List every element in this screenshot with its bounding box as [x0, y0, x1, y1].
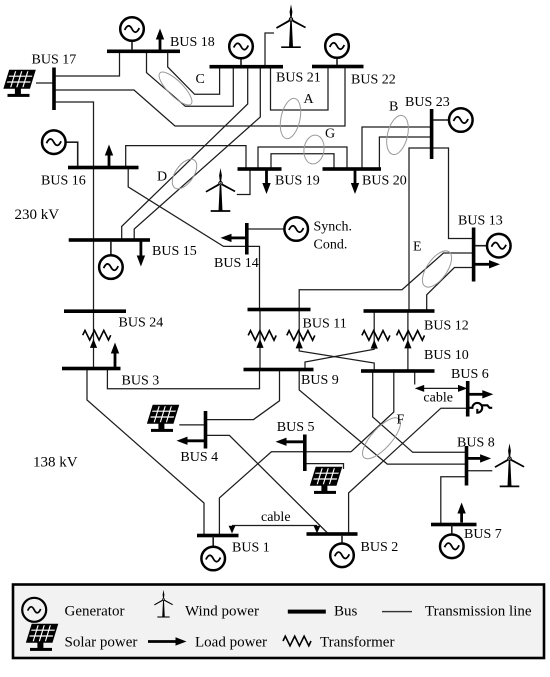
svg-text:D: D	[157, 170, 167, 185]
bus BUS 12	[364, 309, 435, 313]
wire line 15-24	[93, 240, 95, 311]
load arrow bus 8	[468, 454, 491, 462]
svg-text:Cond.: Cond.	[314, 238, 348, 253]
wire line 1-3	[87, 369, 204, 536]
bus BUS 14	[245, 223, 249, 255]
svg-text:BUS 17: BUS 17	[32, 53, 77, 68]
svg-text:BUS 12: BUS 12	[424, 318, 469, 333]
svg-text:BUS 3: BUS 3	[122, 373, 160, 388]
bus BUS 1	[197, 534, 239, 538]
solar power bus 4	[148, 406, 178, 432]
svg-text:F: F	[397, 413, 405, 428]
bus BUS 6	[466, 381, 470, 417]
wire cable riser bus 10	[414, 372, 416, 385]
wire line 12-13	[427, 268, 474, 312]
wire line 15-21 circuit 2	[134, 67, 260, 240]
generator G13	[475, 234, 511, 258]
legend transformer symbol	[283, 636, 311, 646]
svg-text:BUS 14: BUS 14	[214, 256, 259, 271]
svg-text:B: B	[389, 100, 398, 115]
wire transformer branch 10-11	[299, 310, 374, 371]
load arrow bus 13	[475, 260, 501, 268]
bus BUS 17	[52, 68, 56, 111]
wire line 1-5 and 5-10 left part	[219, 452, 351, 536]
wire line 19-20 circuit 2	[271, 154, 334, 169]
wire line 13-23	[432, 148, 474, 239]
svg-text:Wind power: Wind power	[185, 604, 259, 620]
bus BUS 13	[472, 228, 476, 282]
bus BUS 18	[107, 50, 180, 54]
bus BUS 24	[64, 309, 126, 313]
marker ellipse C	[155, 68, 197, 110]
wind power bus 19	[206, 168, 236, 211]
wire line 18-21 circuit 1	[168, 52, 220, 94]
bus BUS 11	[248, 308, 311, 312]
svg-text:BUS 15: BUS 15	[152, 244, 197, 259]
legend bus symbol	[288, 610, 326, 614]
wire line 18-21 circuit 2	[147, 52, 234, 106]
generator G22	[325, 34, 349, 65]
svg-text:230 kV: 230 kV	[15, 207, 60, 223]
wire line 11-13	[299, 253, 473, 310]
wire transformer branch 3-24	[93, 311, 95, 368]
svg-text:BUS 2: BUS 2	[361, 540, 399, 555]
bus BUS 7	[431, 523, 477, 527]
svg-text:BUS 6: BUS 6	[451, 367, 489, 382]
svg-text:BUS 11: BUS 11	[303, 317, 347, 332]
load arrow bus 14	[221, 234, 247, 242]
wire line 2-6	[349, 408, 468, 533]
wire wind connector bus 21	[265, 33, 274, 67]
transformer T9-12	[362, 331, 390, 349]
wire solar connector bus 4	[179, 424, 205, 426]
wire line 12-23	[409, 148, 432, 311]
bus BUS 23	[430, 109, 434, 159]
bus BUS 5	[303, 435, 307, 472]
svg-text:E: E	[413, 240, 422, 255]
load arrow bus 3	[111, 343, 119, 368]
svg-text:BUS 22: BUS 22	[351, 73, 396, 88]
transformer T10-11	[287, 331, 315, 349]
transformer T10-12	[397, 331, 425, 349]
wire line 4-9	[206, 370, 280, 420]
svg-text:Generator: Generator	[65, 604, 125, 620]
transformer T9-11	[248, 331, 276, 348]
generator G1	[201, 536, 225, 570]
wire line 21-22	[271, 67, 329, 110]
bus BUS 3	[62, 367, 121, 371]
generator G23	[433, 108, 473, 132]
generator G7	[440, 525, 464, 558]
bus BUS 10	[361, 369, 435, 373]
legend solar power symbol	[27, 625, 57, 651]
svg-text:138 kV: 138 kV	[33, 455, 78, 471]
generator G18	[120, 17, 144, 50]
svg-text:BUS 4: BUS 4	[180, 450, 218, 465]
svg-text:Load power: Load power	[195, 635, 267, 651]
wire line 19-20 circuit 1	[258, 147, 347, 169]
wire wind connector bus 19	[237, 169, 250, 195]
marker ellipse G	[302, 134, 326, 166]
bus BUS 20	[323, 167, 382, 171]
generator G21	[229, 35, 253, 66]
svg-text:G: G	[325, 127, 335, 142]
bus BUS 16	[68, 166, 139, 170]
wire wind connector bus 8	[467, 470, 493, 472]
svg-text:BUS 21: BUS 21	[276, 71, 321, 86]
load arrow bus 4	[177, 437, 205, 445]
load arrow bus 19	[262, 170, 270, 194]
marker ellipse D	[167, 155, 201, 193]
bus BUS 9	[244, 368, 314, 372]
wind power bus 8	[495, 443, 525, 486]
legend generator symbol	[22, 598, 46, 622]
svg-text:BUS 24: BUS 24	[119, 316, 164, 331]
solar power bus 17	[4, 71, 34, 97]
svg-text:BUS 23: BUS 23	[405, 95, 450, 110]
wire synchronous condenser stem	[248, 228, 286, 230]
wire transformer branch 9-12	[305, 311, 374, 369]
svg-text:Bus: Bus	[334, 604, 358, 620]
marker ellipse F	[357, 412, 407, 464]
cable 6-10 with double arrow	[415, 385, 468, 392]
load arrow bus 16	[105, 145, 113, 167]
svg-text:BUS 8: BUS 8	[457, 436, 495, 451]
bus BUS 19	[238, 167, 282, 171]
generator synchronous condenser	[284, 217, 308, 241]
bus BUS 4	[204, 411, 208, 449]
legend load power symbol	[148, 637, 187, 645]
bus BUS 2	[307, 532, 358, 536]
wire line 7-8	[441, 477, 467, 524]
marker ellipse A	[277, 96, 304, 140]
reactor curl bus 6	[468, 403, 492, 413]
bus BUS 15	[69, 238, 150, 242]
svg-text:BUS 7: BUS 7	[464, 527, 502, 542]
load arrow bus 7	[457, 503, 465, 523]
wire transformer branch 10-12	[407, 311, 409, 371]
svg-text:BUS 9: BUS 9	[301, 373, 339, 388]
bus BUS 22	[312, 65, 364, 69]
svg-text:C: C	[196, 72, 205, 87]
load arrow bus 20	[351, 170, 359, 194]
wire line 15-21 circuit 1	[122, 67, 248, 240]
load arrow bus 5	[276, 438, 304, 446]
legend box	[13, 585, 544, 659]
svg-text:Solar power: Solar power	[65, 635, 138, 651]
svg-text:BUS 10: BUS 10	[424, 348, 469, 363]
svg-text:BUS 16: BUS 16	[41, 173, 86, 188]
load arrow bus 6	[469, 390, 493, 398]
wire line 2-4	[206, 435, 329, 533]
wire line 3-9	[107, 369, 259, 389]
wire line 5-10	[351, 372, 394, 452]
wire line 8-9	[299, 370, 466, 464]
transformer T3-24	[83, 330, 111, 347]
marker ellipse B	[383, 113, 412, 157]
wire solar connector bus 5	[305, 464, 344, 469]
svg-text:cable: cable	[261, 510, 291, 525]
wire line 20-23 circuit 1	[362, 127, 432, 169]
bus BUS 8	[465, 446, 469, 486]
svg-text:BUS 20: BUS 20	[362, 174, 407, 189]
svg-text:Transformer: Transformer	[320, 635, 394, 651]
bus BUS 21	[210, 65, 284, 69]
cable 1-2 with end arrows	[229, 526, 321, 534]
wire line 17-18	[54, 52, 120, 76]
generator G15	[99, 241, 123, 279]
wire line 20-23 circuit 2	[379, 137, 431, 169]
wire line 17-22	[54, 67, 345, 126]
solar power bus 5	[311, 468, 341, 494]
wire solar connector bus 17	[36, 82, 54, 84]
svg-text:BUS 18: BUS 18	[170, 35, 215, 50]
load arrow bus 15	[137, 241, 145, 267]
legend wind power symbol	[154, 590, 173, 617]
svg-text:BUS 13: BUS 13	[458, 214, 503, 229]
svg-text:Transmission line: Transmission line	[425, 604, 532, 620]
generator G16	[42, 130, 78, 166]
load arrow bus 18	[156, 29, 164, 52]
marker ellipse E	[417, 246, 457, 292]
svg-text:BUS 5: BUS 5	[277, 420, 315, 435]
wire line 15-16	[93, 168, 95, 240]
wire line 14-16	[128, 167, 259, 309]
wire transformer branch 9-11	[259, 310, 261, 369]
svg-text:A: A	[304, 92, 315, 107]
wind power bus 21	[276, 4, 306, 47]
svg-text:BUS 1: BUS 1	[232, 541, 270, 556]
legend transmission line symbol	[382, 611, 412, 612]
wire line 16-17	[54, 102, 94, 167]
wire line 16-19	[126, 146, 246, 169]
svg-text:cable: cable	[423, 391, 453, 406]
svg-text:Synch.: Synch.	[314, 220, 353, 235]
svg-text:BUS 19: BUS 19	[275, 174, 320, 189]
generator G2	[330, 535, 354, 567]
wire line 8-10	[373, 372, 467, 453]
